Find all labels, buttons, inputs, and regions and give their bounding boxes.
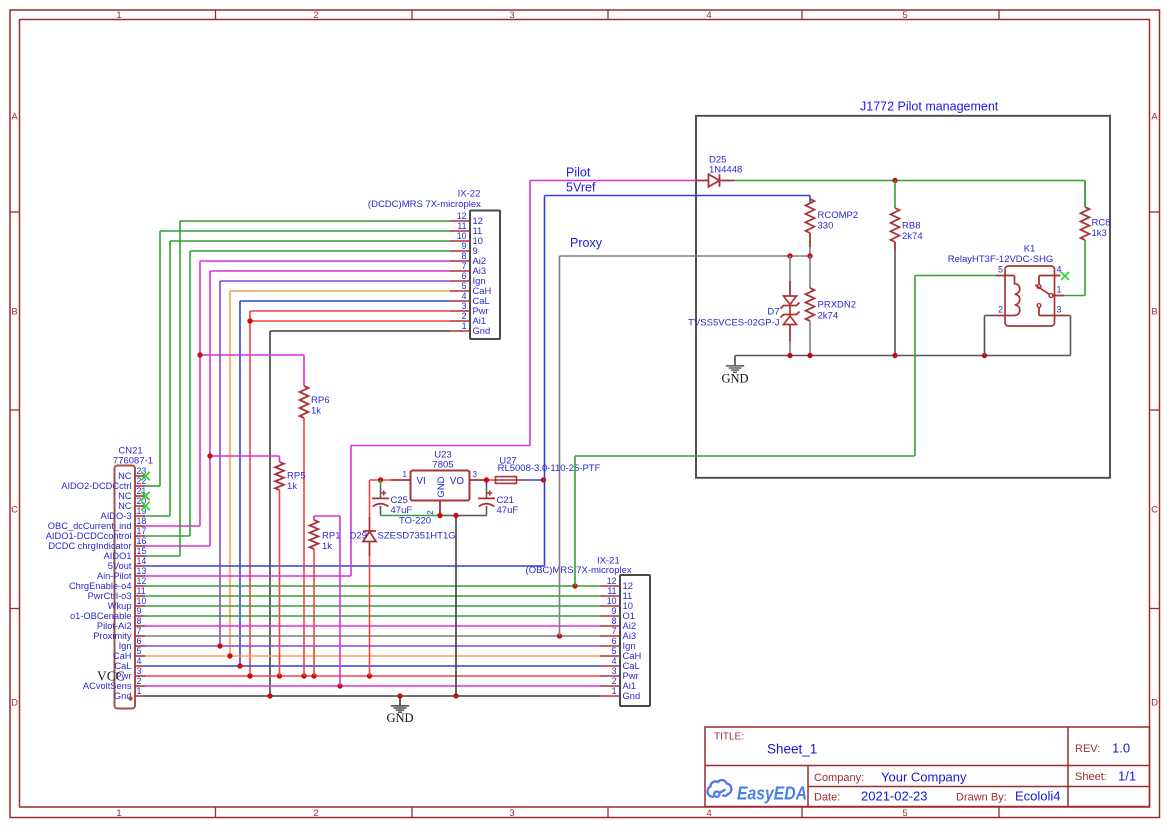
title block xyxy=(705,727,1150,807)
wire net PwrCtrl-o3 (CN21 to IX-21) xyxy=(145,595,600,597)
junction Proximity/Proxy xyxy=(557,633,562,638)
junction ChrgEnable/relay xyxy=(572,583,577,588)
svg-text:18: 18 xyxy=(137,516,147,526)
bottom ground symbol xyxy=(399,696,401,706)
svg-text:Proxy: Proxy xyxy=(570,236,603,250)
svg-text:TO-220: TO-220 xyxy=(399,516,431,527)
svg-text:5: 5 xyxy=(902,10,907,21)
svg-text:1.0: 1.0 xyxy=(1112,741,1130,756)
resistor RB8 2k74 xyxy=(891,181,923,356)
wire net Gnd (CN21 to IX-21) xyxy=(145,695,600,697)
svg-text:IX-22: IX-22 xyxy=(458,188,481,199)
svg-text:C: C xyxy=(11,505,18,516)
wire Pilot net (Ain-Pilot to D25) xyxy=(145,181,696,577)
resistor PRXDN2 2k74 xyxy=(806,256,856,356)
svg-text:TVSS5VCES-02GP-J: TVSS5VCES-02GP-J xyxy=(688,318,780,329)
svg-text:VI: VI xyxy=(417,476,426,487)
svg-text:5: 5 xyxy=(462,281,467,291)
svg-text:RP1: RP1 xyxy=(322,531,340,542)
wire Proxy net xyxy=(560,256,811,636)
svg-text:5Vref: 5Vref xyxy=(566,181,596,195)
svg-text:CaH: CaH xyxy=(113,651,132,661)
svg-text:2: 2 xyxy=(313,808,318,819)
svg-text:5: 5 xyxy=(998,265,1003,275)
wire net Pwr VCC (CN21 to IX-21) xyxy=(145,675,600,677)
connector IX-21 (OBC)MRS 7X-microplex xyxy=(526,556,650,707)
svg-text:Gnd: Gnd xyxy=(473,325,491,336)
resistor RP1 1k xyxy=(310,516,341,686)
wire net CaH (CN21 to IX-21) xyxy=(145,655,600,657)
junction Pwr RP1 xyxy=(311,673,316,678)
svg-text:330: 330 xyxy=(818,221,834,232)
svg-text:VCC: VCC xyxy=(97,669,125,684)
svg-text:Your Company: Your Company xyxy=(881,770,967,785)
svg-text:Company:: Company: xyxy=(814,772,864,784)
svg-text:3: 3 xyxy=(1057,305,1062,315)
junction Pwr bundle xyxy=(247,673,252,678)
EasyEDA logo xyxy=(707,780,807,803)
connector IX-22 (DCDC)MRS 7X-microplex xyxy=(368,188,500,339)
junction Gnd U23 xyxy=(453,693,458,698)
wire IX-22.8 Ai2 to CN21.18 xyxy=(200,261,450,526)
wire IX-22.6 Ign xyxy=(220,281,450,646)
svg-text:1N4448: 1N4448 xyxy=(709,165,742,176)
svg-text:2: 2 xyxy=(426,510,435,515)
svg-text:D7: D7 xyxy=(767,307,779,318)
svg-text:10: 10 xyxy=(457,231,467,241)
svg-text:RB8: RB8 xyxy=(902,221,920,232)
svg-text:5: 5 xyxy=(137,646,142,656)
svg-text:Ecololi4: Ecololi4 xyxy=(1015,789,1061,804)
svg-text:(DCDC)MRS 7X-microplex: (DCDC)MRS 7X-microplex xyxy=(368,199,481,210)
svg-text:4: 4 xyxy=(706,808,711,819)
wire IX-22.11 to CN21.22 xyxy=(160,231,450,486)
svg-text:9: 9 xyxy=(612,606,617,616)
svg-text:GND: GND xyxy=(386,711,413,725)
svg-text:4: 4 xyxy=(462,291,467,301)
svg-text:RCOMP2: RCOMP2 xyxy=(818,210,859,221)
junction Pwr RP6 xyxy=(301,673,306,678)
svg-text:AIDO1: AIDO1 xyxy=(104,551,132,561)
svg-text:47uF: 47uF xyxy=(391,505,413,516)
wire relay pin5 to IX-21 pin12 (green) xyxy=(575,276,996,587)
svg-text:7: 7 xyxy=(137,626,142,636)
svg-text:Ign: Ign xyxy=(119,641,132,651)
svg-text:2: 2 xyxy=(612,676,617,686)
svg-text:3: 3 xyxy=(137,666,142,676)
svg-text:RP5: RP5 xyxy=(287,471,305,482)
svg-text:2: 2 xyxy=(313,10,318,21)
wire net Pilot-Ai2 (CN21 to IX-21) xyxy=(145,625,600,627)
svg-text:PwrCtrl-o3: PwrCtrl-o3 xyxy=(88,591,132,601)
svg-text:A: A xyxy=(11,112,18,123)
junction CaL xyxy=(237,663,242,668)
svg-text:1: 1 xyxy=(612,686,617,696)
capacitor C25 47uF xyxy=(372,480,412,516)
svg-text:RP6: RP6 xyxy=(311,395,329,406)
resistor RCOMP2 330 xyxy=(806,199,859,256)
svg-text:REV:: REV: xyxy=(1075,743,1100,755)
junction CaH xyxy=(227,653,232,658)
TVS diode D7 TVSS5VCES-02GP-J xyxy=(688,256,799,356)
svg-text:2: 2 xyxy=(998,305,1003,315)
wire IX-22 pin2 Ai1 tie to Pwr xyxy=(250,320,450,322)
wire CN21.18 stub xyxy=(145,525,200,527)
svg-text:1: 1 xyxy=(116,10,121,21)
svg-text:o1-OBCenable: o1-OBCenable xyxy=(70,611,132,621)
svg-text:NC: NC xyxy=(118,471,132,481)
svg-text:1: 1 xyxy=(116,808,121,819)
svg-text:RL5008-3.0-110-25-PTF: RL5008-3.0-110-25-PTF xyxy=(498,463,601,474)
svg-text:11: 11 xyxy=(137,586,146,596)
resistor RP5 1k xyxy=(210,456,305,676)
wire D25 cathode green xyxy=(735,180,1086,182)
svg-text:DCDC chrgIndicator: DCDC chrgIndicator xyxy=(48,541,131,551)
svg-text:A: A xyxy=(1151,112,1158,123)
wire IX-22.10 to CN21.19 xyxy=(170,241,450,516)
wire net CaL (CN21 to IX-21) xyxy=(145,665,600,667)
CN21 no-connect X pins 23,21,20 xyxy=(141,472,149,480)
svg-text:3: 3 xyxy=(509,10,514,21)
relay K1 RelayHT3F-12VDC-SHG xyxy=(948,244,1065,327)
svg-text:GND: GND xyxy=(721,372,748,386)
svg-text:7: 7 xyxy=(612,626,617,636)
svg-text:D: D xyxy=(11,698,18,709)
svg-text:1k3: 1k3 xyxy=(1092,228,1107,239)
svg-text:12: 12 xyxy=(607,576,617,586)
svg-text:5Vout: 5Vout xyxy=(108,561,132,571)
wire IX-22.12 to CN21.15 xyxy=(180,221,450,556)
wire net Wkup (CN21 to IX-21) xyxy=(145,605,600,607)
svg-text:Drawn By:: Drawn By: xyxy=(956,792,1007,804)
wire VCC to U23 VI xyxy=(370,479,392,481)
svg-text:7805: 7805 xyxy=(432,460,453,471)
wire 5Vout blue riser xyxy=(145,565,545,567)
diode D29 SZESD7351HT1G xyxy=(350,480,456,676)
svg-text:J1772 Pilot management: J1772 Pilot management xyxy=(860,100,999,114)
svg-text:AIDO2-DCDCctrl: AIDO2-DCDCctrl xyxy=(61,481,131,491)
svg-text:Pilot-Ai2: Pilot-Ai2 xyxy=(97,621,132,631)
svg-text:47uF: 47uF xyxy=(497,505,519,516)
svg-text:VO: VO xyxy=(450,476,465,487)
svg-text:4: 4 xyxy=(706,10,711,21)
svg-text:1k: 1k xyxy=(287,481,297,492)
svg-text:6: 6 xyxy=(462,271,467,281)
svg-text:12: 12 xyxy=(457,211,467,221)
svg-text:3: 3 xyxy=(509,808,514,819)
svg-text:Gnd: Gnd xyxy=(623,690,641,701)
svg-text:SZESD7351HT1G: SZESD7351HT1G xyxy=(378,531,456,542)
wire IX-22.7 Ai3 to CN21.16 xyxy=(210,271,450,546)
capacitor C21 47uF xyxy=(478,480,518,516)
svg-text:4: 4 xyxy=(612,656,617,666)
svg-text:1: 1 xyxy=(1057,285,1062,295)
svg-text:Date:: Date: xyxy=(814,792,840,804)
wire relay pin3 to ground xyxy=(1065,316,1071,356)
svg-text:11: 11 xyxy=(457,221,466,231)
wire CN21.22 stub xyxy=(145,485,160,487)
svg-text:2021-02-23: 2021-02-23 xyxy=(861,789,928,804)
svg-text:3: 3 xyxy=(612,666,617,676)
diode D25 1N4448 xyxy=(696,155,742,187)
svg-text:8: 8 xyxy=(612,616,617,626)
svg-text:12: 12 xyxy=(137,576,147,586)
junction IX-22 Ai1/Pwr xyxy=(247,318,252,323)
ground rail in J1772 box xyxy=(735,355,1071,357)
svg-text:Pilot: Pilot xyxy=(566,166,591,180)
fuse U27 RL5008 xyxy=(487,456,601,484)
svg-text:3: 3 xyxy=(462,301,467,311)
connector CN21 776087-1 xyxy=(46,446,153,709)
svg-text:5: 5 xyxy=(902,808,907,819)
wire RC8 to relay pin1 xyxy=(1084,181,1086,208)
svg-text:8: 8 xyxy=(137,616,142,626)
svg-text:5: 5 xyxy=(612,646,617,656)
J1772 Pilot management box xyxy=(696,116,1110,478)
svg-text:7: 7 xyxy=(462,261,467,271)
svg-text:D29: D29 xyxy=(350,531,367,542)
svg-text:B: B xyxy=(1151,307,1157,318)
wire IX-22.5 CaH xyxy=(230,291,450,656)
wire CN21.19 stub xyxy=(145,515,170,517)
wire net Ign (CN21 to IX-21) xyxy=(145,645,600,647)
svg-text:Ain-Pilot: Ain-Pilot xyxy=(97,571,132,581)
svg-text:Proximity: Proximity xyxy=(93,631,132,641)
wire relay pin2 to ground xyxy=(985,316,996,356)
svg-text:1: 1 xyxy=(137,686,142,696)
resistor RP6 1k xyxy=(200,355,329,676)
svg-text:Sheet:: Sheet: xyxy=(1075,771,1107,783)
svg-text:GND: GND xyxy=(436,476,447,497)
svg-text:17: 17 xyxy=(137,526,147,536)
svg-text:OBC_dcCurrent_ind: OBC_dcCurrent_ind xyxy=(48,521,132,531)
svg-text:13: 13 xyxy=(137,566,147,576)
wire IX-22.1 Gnd xyxy=(270,331,450,696)
ground wires under U23 xyxy=(381,516,487,697)
svg-text:2: 2 xyxy=(137,676,142,686)
svg-text:2: 2 xyxy=(462,311,467,321)
svg-text:C: C xyxy=(1151,505,1158,516)
relay pin4 no-connect X xyxy=(1061,272,1069,280)
wire IX-22.9 to CN21.17 xyxy=(190,251,450,536)
ground symbol J1772 xyxy=(734,356,736,366)
svg-text:K1: K1 xyxy=(1024,244,1036,255)
svg-text:1: 1 xyxy=(462,321,467,331)
junction Pwr RP5 xyxy=(277,673,282,678)
svg-text:RelayHT3F-12VDC-SHG: RelayHT3F-12VDC-SHG xyxy=(948,254,1054,265)
svg-text:4: 4 xyxy=(137,656,142,666)
svg-text:6: 6 xyxy=(612,636,617,646)
junction Pwr D29 xyxy=(367,673,372,678)
svg-text:2k74: 2k74 xyxy=(818,311,839,322)
svg-text:Wkup: Wkup xyxy=(108,601,132,611)
svg-text:1k: 1k xyxy=(322,541,332,552)
svg-text:PRXDN2: PRXDN2 xyxy=(818,300,857,311)
wire net ChrgEnable-o4 (CN21 to IX-21) xyxy=(145,585,600,587)
wire 5Vref blue horizontal xyxy=(545,195,811,197)
svg-text:AIDO-3: AIDO-3 xyxy=(101,511,132,521)
svg-text:EasyEDA: EasyEDA xyxy=(737,783,807,804)
wire CN21.17 stub xyxy=(145,535,190,537)
svg-text:3: 3 xyxy=(473,470,478,479)
svg-text:14: 14 xyxy=(137,556,147,566)
op-amp U23 7805 regulator xyxy=(391,450,487,527)
svg-text:TITLE:: TITLE: xyxy=(714,732,744,743)
svg-text:10: 10 xyxy=(137,596,147,606)
wire CN21.15 stub xyxy=(145,555,180,557)
resistor RC8 1k3 xyxy=(1064,181,1111,296)
junction Gnd symbol xyxy=(397,693,402,698)
svg-text:16: 16 xyxy=(137,536,147,546)
svg-text:B: B xyxy=(11,307,17,318)
svg-text:2k74: 2k74 xyxy=(902,231,923,242)
svg-text:11: 11 xyxy=(607,586,616,596)
junction ACvoltSens RP1 xyxy=(337,683,342,688)
junction Gnd bundle xyxy=(267,693,272,698)
svg-text:1/1: 1/1 xyxy=(1118,769,1136,784)
junction Ign xyxy=(217,643,222,648)
wire IX-22.3 Pwr xyxy=(250,311,450,676)
svg-text:1k: 1k xyxy=(311,406,321,417)
svg-text:9: 9 xyxy=(462,241,467,251)
svg-text:RC8: RC8 xyxy=(1092,218,1111,229)
wire net o1-OBCenable (CN21 to IX-21) xyxy=(145,615,600,617)
svg-text:NC: NC xyxy=(118,491,132,501)
wire net ACvoltSens (CN21 to IX-21) xyxy=(145,685,600,687)
svg-text:10: 10 xyxy=(607,596,617,606)
svg-text:1: 1 xyxy=(403,470,408,479)
svg-text:AIDO1-DCDCcontrol: AIDO1-DCDCcontrol xyxy=(46,531,132,541)
svg-text:NC: NC xyxy=(118,501,132,511)
svg-text:8: 8 xyxy=(462,251,467,261)
svg-text:776087-1: 776087-1 xyxy=(113,456,153,467)
svg-text:15: 15 xyxy=(137,546,147,556)
wire IX-22.4 CaL xyxy=(240,301,450,666)
svg-text:9: 9 xyxy=(137,606,142,616)
svg-text:Sheet_1: Sheet_1 xyxy=(767,742,817,757)
svg-text:ChrgEnable-o4: ChrgEnable-o4 xyxy=(69,581,132,591)
wire CN21.16 stub xyxy=(145,545,210,547)
svg-text:6: 6 xyxy=(137,636,142,646)
svg-text:D: D xyxy=(1151,698,1158,709)
wire net Proximity (CN21 to IX-21) xyxy=(145,635,600,637)
